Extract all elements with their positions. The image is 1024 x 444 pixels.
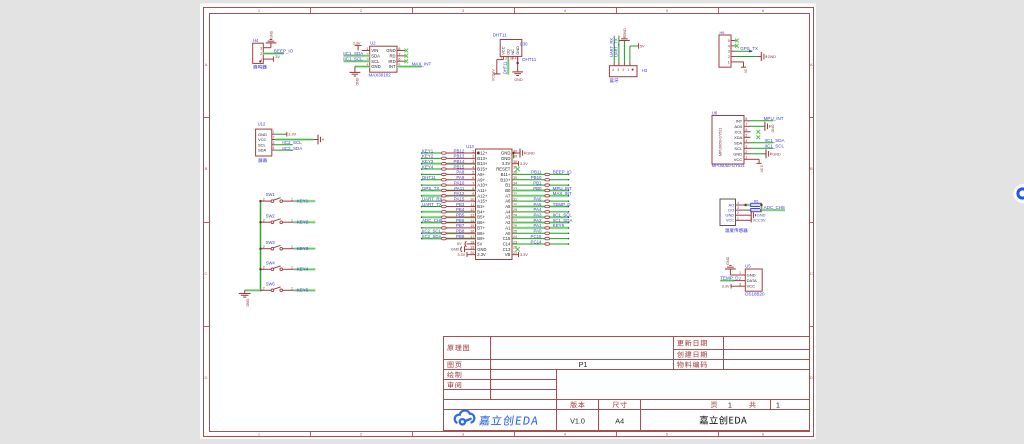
- svg-text:B: B: [810, 166, 813, 171]
- no-connect H6 pin5: [735, 39, 739, 43]
- svg-text:GND: GND: [258, 132, 267, 137]
- svg-text:BEEP_IO: BEEP_IO: [553, 170, 572, 175]
- wire MPU_INT from U6 INT: [751, 120, 774, 122]
- svg-text:DS18B20: DS18B20: [745, 291, 765, 296]
- svg-text:A10+: A10+: [477, 183, 488, 188]
- wire DHT11 GND pin: [517, 56, 519, 72]
- svg-text:2: 2: [273, 136, 275, 140]
- svg-text:PB8: PB8: [456, 229, 465, 234]
- svg-text:1: 1: [728, 402, 732, 409]
- svg-text:PA2: PA2: [534, 218, 543, 223]
- svg-text:3: 3: [273, 141, 275, 145]
- H3 pin1 arrow marker: [632, 69, 634, 71]
- svg-text:B8+: B8+: [477, 231, 485, 236]
- svg-text:B7+: B7+: [477, 225, 485, 230]
- wire KEY4: [294, 268, 315, 271]
- junction dot top: [760, 204, 762, 206]
- svg-text:GND: GND: [768, 55, 777, 59]
- connector H3 (bluetooth header): [609, 66, 637, 77]
- wire IIC2_SDA from U12: [275, 149, 292, 151]
- U14 left pin 1 B12+ row: [422, 152, 442, 154]
- svg-text:VCC: VCC: [726, 218, 735, 223]
- U14 left pin 2 B13+ row: [422, 157, 442, 159]
- svg-text:3: 3: [617, 68, 619, 72]
- wire H3 pin1 to 5V: [629, 46, 631, 63]
- svg-text:1: 1: [737, 216, 739, 220]
- temp sensor label 温度传感器: [725, 228, 748, 232]
- svg-text:B4+: B4+: [477, 209, 485, 214]
- svg-text:VCC: VCC: [258, 137, 267, 142]
- svg-text:PB1: PB1: [533, 180, 542, 185]
- wire U12 VCC to ground: [275, 138, 313, 141]
- wire U6 VCC to 3.3V: [751, 158, 760, 160]
- svg-text:3.3V: 3.3V: [288, 133, 296, 137]
- module U12 screen body: [256, 129, 272, 156]
- no-connect U2 pin8: [404, 49, 408, 53]
- svg-text:B0: B0: [505, 188, 511, 193]
- title 版本: [570, 401, 584, 408]
- U14 pin 18 5V: [467, 243, 476, 245]
- wire H6 pin1 to 3V: [736, 61, 744, 63]
- power flag 3.3V at U12: [286, 132, 288, 137]
- svg-text:H4: H4: [253, 38, 259, 43]
- svg-text:IIC2_SCL: IIC2_SCL: [422, 229, 442, 234]
- svg-text:DATA: DATA: [747, 278, 757, 283]
- svg-text:XCL: XCL: [734, 129, 743, 134]
- wire U5 GND to ground: [730, 274, 734, 276]
- wire IIC1_SCL to U2 pin3: [344, 60, 370, 63]
- svg-text:B6+: B6+: [477, 220, 485, 225]
- no-connect U14 C13: [515, 247, 519, 251]
- svg-text:3.3V: 3.3V: [520, 162, 528, 166]
- svg-text:PB4: PB4: [456, 207, 465, 212]
- svg-text:MPU6050-GY521: MPU6050-GY521: [719, 128, 723, 156]
- svg-text:PB11: PB11: [531, 170, 542, 175]
- svg-text:SW4: SW4: [266, 260, 276, 265]
- title block horizontal lines: [674, 349, 810, 351]
- power flag VCC3V: [493, 73, 500, 75]
- svg-text:39: 39: [513, 155, 517, 159]
- svg-text:B9+: B9+: [477, 236, 485, 241]
- svg-text:C: C: [205, 271, 208, 276]
- ground for switches: [244, 290, 246, 293]
- svg-text:MAX_INT: MAX_INT: [412, 62, 432, 67]
- svg-text:19: 19: [470, 246, 474, 250]
- logo JLC EDA text: [479, 415, 539, 425]
- U14 left pin 9 A12+ row: [422, 194, 442, 197]
- svg-text:GND: GND: [733, 151, 742, 156]
- U14 left pin 11 B3+ row: [422, 206, 442, 208]
- svg-text:UART_RX: UART_RX: [422, 196, 442, 201]
- svg-text:MPU_INT: MPU_INT: [764, 116, 784, 121]
- H4 pin1 marker dot: [259, 60, 261, 62]
- svg-text:3V: 3V: [275, 55, 280, 59]
- svg-text:C: C: [810, 271, 813, 276]
- svg-text:GND: GND: [771, 125, 775, 133]
- H4 pin 1 stub to 3V: [263, 58, 273, 60]
- svg-text:6: 6: [472, 176, 474, 180]
- svg-text:PA5: PA5: [534, 202, 543, 207]
- svg-text:3.3V: 3.3V: [759, 165, 763, 173]
- svg-text:GND: GND: [269, 30, 273, 38]
- ground for U12 (sideways): [313, 139, 318, 141]
- svg-text:SW3: SW3: [266, 240, 276, 245]
- svg-text:10: 10: [470, 197, 474, 201]
- junction dot SW2: [259, 221, 261, 223]
- svg-text:MPU6050-GY521: MPU6050-GY521: [712, 163, 746, 168]
- svg-text:15: 15: [470, 224, 474, 228]
- svg-text:PB15: PB15: [454, 164, 465, 169]
- frame inner border: [210, 14, 810, 432]
- svg-text:PA8: PA8: [456, 170, 465, 175]
- svg-text:IIC1_SCL: IIC1_SCL: [553, 213, 573, 218]
- svg-text:5: 5: [472, 171, 474, 175]
- junction dot bottom: [760, 209, 762, 211]
- svg-text:B13+: B13+: [477, 156, 488, 161]
- svg-text:2: 2: [472, 155, 474, 159]
- no-connect U6 XDA: [756, 135, 760, 139]
- svg-text:GND: GND: [371, 64, 380, 69]
- junction dot DHT11 GND: [516, 62, 518, 64]
- svg-text:VB: VB: [505, 252, 511, 257]
- svg-text:D: D: [205, 375, 208, 380]
- power flag 3V vertical: [741, 66, 746, 68]
- power flag 3V: [272, 56, 274, 61]
- svg-text:B14+: B14+: [477, 161, 488, 166]
- title 嘉立创EDA text: [700, 416, 747, 425]
- junction dot SW4: [259, 268, 261, 270]
- svg-text:GND: GND: [772, 152, 781, 156]
- H4 pin 3 stub: [263, 47, 271, 49]
- svg-text:PB5: PB5: [456, 213, 465, 218]
- no-connect U2 pin7: [404, 54, 408, 58]
- svg-text:A8+: A8+: [477, 172, 485, 177]
- svg-text:GND: GND: [526, 152, 535, 156]
- U14 pin1 marker dot: [477, 152, 479, 154]
- svg-text:PB9: PB9: [456, 234, 465, 239]
- power flag VCC3V: [750, 218, 752, 223]
- svg-text:SCL: SCL: [371, 59, 380, 64]
- U14 left pin 13 B5+ row: [422, 216, 442, 219]
- svg-text:17: 17: [470, 235, 474, 239]
- svg-text:GND: GND: [514, 78, 523, 82]
- svg-text:PB12: PB12: [454, 148, 465, 153]
- svg-text:UART_TX: UART_TX: [422, 202, 442, 207]
- sensor U30 DHT11 body: [500, 40, 522, 57]
- svg-text:A: A: [205, 62, 208, 67]
- H3 label 蓝牙: [610, 78, 619, 82]
- U14 left pin 16 B8+ row: [422, 232, 442, 235]
- U14 left pin 14 B6+ row: [422, 221, 442, 224]
- svg-text:KEY5: KEY5: [553, 223, 565, 228]
- svg-text:VIN: VIN: [371, 48, 378, 53]
- wire KEY1: [294, 200, 315, 203]
- svg-text:DHT11: DHT11: [522, 57, 536, 62]
- svg-text:B10+: B10+: [500, 177, 511, 182]
- svg-text:GND: GND: [623, 28, 627, 36]
- svg-text:GND: GND: [726, 256, 730, 264]
- U14 left pin 17 B9+ row: [422, 237, 442, 240]
- svg-text:MAX30102: MAX30102: [369, 72, 392, 77]
- svg-text:A4: A4: [615, 416, 624, 425]
- svg-text:3.3V: 3.3V: [520, 253, 528, 257]
- U14 left pin 15 B7+ row: [422, 227, 442, 229]
- title 创建日期: [677, 351, 707, 357]
- svg-text:B5+: B5+: [477, 215, 485, 220]
- svg-text:1: 1: [627, 68, 629, 72]
- svg-text:XDA: XDA: [734, 135, 743, 140]
- svg-text:GND: GND: [355, 78, 359, 86]
- U14 left pin 4 B15+ row: [422, 168, 442, 170]
- svg-text:INT: INT: [389, 64, 396, 69]
- H3 pin stubs top: [613, 63, 615, 66]
- svg-text:DHT11: DHT11: [422, 175, 436, 180]
- U12 pin stubs: [272, 133, 275, 135]
- svg-text:BEEP_IO: BEEP_IO: [274, 49, 294, 54]
- wire DHT11 DQ data: [507, 60, 510, 75]
- wire KEY5: [294, 289, 315, 292]
- svg-text:PB13: PB13: [454, 154, 465, 159]
- wire MAX_INT from U2 pin5: [397, 65, 422, 68]
- svg-text:MPU_INT: MPU_INT: [553, 186, 573, 191]
- svg-text:GND: GND: [515, 46, 520, 55]
- svg-text:B3+: B3+: [477, 204, 485, 209]
- svg-text:13: 13: [470, 214, 474, 218]
- svg-text:8: 8: [472, 187, 474, 191]
- title 页: [711, 402, 717, 408]
- svg-text:A0: A0: [505, 231, 511, 236]
- svg-text:U30: U30: [520, 41, 528, 46]
- frame row ticks right: [810, 117, 814, 119]
- ground for H3: [619, 40, 630, 42]
- svg-text:VCC: VCC: [734, 157, 743, 162]
- svg-text:U12: U12: [258, 121, 266, 126]
- wire KEY2: [294, 221, 315, 224]
- title 原理图: [447, 345, 469, 351]
- junction dot SW5: [259, 289, 261, 291]
- logo JLC EDA cloud icon: [455, 410, 475, 424]
- junction dot SW1: [259, 200, 261, 202]
- frame row ticks left: [204, 117, 210, 119]
- svg-text:B1: B1: [505, 183, 511, 188]
- title 尺寸: [613, 401, 627, 407]
- connector H4 (buzzer header): [253, 43, 264, 63]
- svg-text:3: 3: [737, 206, 739, 210]
- svg-text:37: 37: [513, 165, 517, 169]
- title 审阅: [448, 382, 462, 389]
- H6 pin stubs: [731, 40, 736, 42]
- wire H6 pin2 to ground: [736, 56, 757, 58]
- svg-text:GND: GND: [501, 151, 510, 156]
- ground for DHT11: [512, 71, 523, 73]
- title 绘制: [447, 371, 461, 378]
- svg-text:PA3: PA3: [534, 213, 543, 218]
- no-connect U2 pin6: [404, 59, 408, 63]
- svg-text:9: 9: [472, 192, 474, 196]
- svg-text:PA10: PA10: [454, 180, 465, 185]
- wire U2 pin4 to ground: [355, 65, 370, 68]
- svg-text:KEY1: KEY1: [297, 198, 309, 203]
- DHT11 pin stubs: [502, 56, 504, 59]
- svg-text:TEMP_D: TEMP_D: [553, 202, 571, 207]
- svg-text:PA1: PA1: [534, 223, 543, 228]
- svg-text:A12+: A12+: [477, 193, 488, 198]
- wire KEY3: [294, 247, 315, 250]
- resistor R7 (blue) on DO wire: [751, 209, 762, 212]
- junction dot AO: [744, 204, 746, 206]
- svg-text:22: 22: [513, 246, 517, 250]
- resistor R6 (blue) on AO wire: [751, 203, 762, 206]
- wire U6 AD0 to ground: [751, 125, 764, 127]
- svg-text:KEY3: KEY3: [422, 159, 434, 164]
- ground for U2: [354, 67, 356, 73]
- svg-text:GND: GND: [477, 247, 486, 252]
- svg-text:D: D: [810, 375, 813, 380]
- U12 label 屏幕: [258, 158, 267, 162]
- svg-text:PB14: PB14: [454, 159, 465, 164]
- svg-text:C15: C15: [503, 236, 511, 241]
- svg-text:IIC2_SDA: IIC2_SDA: [422, 234, 442, 239]
- wire UART_RX: [613, 36, 615, 63]
- svg-text:PA11: PA11: [454, 186, 465, 191]
- svg-text:1: 1: [776, 402, 780, 409]
- ground for U6 GND (sideways): [764, 153, 767, 155]
- wire DHT11 VCC to power: [497, 59, 504, 61]
- U14 left pin 10 A15+ row: [422, 200, 442, 202]
- svg-text:KEY2: KEY2: [297, 220, 309, 225]
- wire temp GND to ground: [744, 214, 751, 216]
- wire BEEP_IO from H4 pin2: [263, 52, 284, 55]
- svg-text:4: 4: [737, 201, 739, 205]
- U6 pin stubs: [744, 120, 751, 122]
- svg-text:PA15: PA15: [454, 196, 465, 201]
- U14 pin 19 GND: [465, 248, 476, 250]
- svg-text:16: 16: [470, 230, 474, 234]
- svg-text:VCC: VCC: [747, 284, 756, 289]
- ground for H4: [266, 42, 277, 44]
- svg-text:SCL: SCL: [258, 142, 267, 147]
- svg-text:C14: C14: [503, 241, 511, 246]
- svg-text:GND: GND: [451, 248, 460, 252]
- svg-text:V1.0: V1.0: [570, 416, 585, 425]
- wire IIC1_SCL from U6: [751, 147, 774, 149]
- svg-text:DHT11: DHT11: [493, 33, 507, 38]
- wire IIC1_SDA from U6: [751, 142, 774, 144]
- wire joining resistors: [760, 205, 763, 210]
- svg-text:A3: A3: [505, 215, 511, 220]
- svg-text:DHT11: DHT11: [503, 61, 508, 74]
- svg-text:SW1: SW1: [266, 192, 276, 197]
- svg-text:PC14: PC14: [531, 239, 543, 244]
- svg-text:A4: A4: [505, 209, 511, 214]
- svg-text:SDA: SDA: [371, 53, 380, 58]
- svg-text:PA12: PA12: [454, 191, 465, 196]
- wire from AO pin: [744, 204, 751, 207]
- svg-text:4: 4: [612, 68, 614, 72]
- svg-text:A15+: A15+: [477, 199, 488, 204]
- svg-text:1: 1: [273, 130, 275, 134]
- svg-text:GND: GND: [386, 48, 395, 53]
- svg-text:H6: H6: [720, 31, 725, 35]
- svg-text:C13: C13: [503, 247, 511, 252]
- svg-text:4: 4: [472, 165, 474, 169]
- svg-text:1: 1: [472, 149, 474, 153]
- title 图页: [448, 362, 462, 368]
- svg-text:3.3V: 3.3V: [353, 41, 361, 45]
- IC U5 DS18B20 body: [745, 269, 762, 291]
- U14 pin 20 3.3V: [467, 254, 476, 256]
- svg-text:VCC3V: VCC3V: [491, 69, 495, 82]
- svg-text:PB0: PB0: [533, 186, 542, 191]
- power flag 3.3V at U6: [757, 162, 762, 164]
- wire UART_TX: [618, 36, 620, 63]
- svg-text:PA4: PA4: [534, 207, 543, 212]
- schematic sheet: [200, 4, 816, 440]
- ground for temp sensor (sideways): [750, 214, 752, 216]
- title 共: [749, 401, 755, 407]
- svg-text:4: 4: [273, 146, 275, 150]
- svg-text:RD: RD: [390, 53, 396, 58]
- svg-text:ADC_CH8: ADC_CH8: [422, 218, 443, 223]
- svg-text:SW6: SW6: [266, 281, 276, 286]
- wire switch bus to ground: [245, 289, 261, 292]
- svg-text:VCC3V: VCC3V: [753, 218, 766, 223]
- svg-text:IIC1_SDA: IIC1_SDA: [765, 138, 785, 143]
- title 物料编码: [677, 361, 707, 368]
- svg-text:AD0: AD0: [734, 124, 743, 129]
- U14 left pin 7 A10+ row: [422, 184, 442, 186]
- svg-text:5V: 5V: [640, 45, 645, 49]
- svg-text:P1: P1: [579, 360, 588, 369]
- svg-text:PA9: PA9: [456, 175, 465, 180]
- IC U14 STM32 module body: [476, 149, 513, 260]
- wire TEMP_D to U5 DATA: [720, 279, 734, 282]
- svg-text:3: 3: [510, 56, 512, 60]
- title block vertical lines: [490, 337, 492, 400]
- IC U2 MAX30102 body: [370, 46, 397, 72]
- svg-text:12: 12: [470, 208, 474, 212]
- svg-text:A9+: A9+: [477, 177, 485, 182]
- svg-text:B: B: [205, 166, 208, 171]
- svg-text:GPS_TX: GPS_TX: [422, 186, 439, 191]
- svg-text:3.3V: 3.3V: [457, 253, 465, 257]
- svg-text:B12+: B12+: [477, 151, 488, 156]
- svg-text:B11+: B11+: [501, 172, 511, 177]
- svg-text:A: A: [810, 62, 813, 67]
- svg-text:3.3V: 3.3V: [477, 252, 486, 257]
- svg-text:SDA: SDA: [734, 140, 743, 145]
- wire temp VCC to power: [744, 219, 751, 221]
- svg-text:PC15: PC15: [531, 234, 543, 239]
- U2 pin stubs left: [362, 50, 370, 52]
- svg-text:5V: 5V: [477, 241, 482, 246]
- svg-text:U2: U2: [370, 41, 376, 46]
- svg-text:3.3V: 3.3V: [722, 285, 730, 289]
- svg-text:PB6: PB6: [456, 218, 465, 223]
- U14 left pin 3 B14+ row: [422, 162, 442, 165]
- svg-text:11: 11: [470, 203, 474, 207]
- svg-text:3: 3: [472, 160, 474, 164]
- svg-text:KEY4: KEY4: [422, 164, 434, 169]
- svg-text:IIC1_SCL: IIC1_SCL: [343, 56, 363, 61]
- temp sensor pin stubs: [736, 204, 745, 206]
- svg-text:INT: INT: [736, 118, 743, 123]
- svg-text:20: 20: [470, 251, 474, 255]
- svg-text:PA6: PA6: [534, 196, 543, 201]
- svg-text:MAX_INT: MAX_INT: [553, 191, 572, 196]
- svg-text:A2: A2: [505, 220, 511, 225]
- wire U6 GND to ground: [751, 153, 764, 155]
